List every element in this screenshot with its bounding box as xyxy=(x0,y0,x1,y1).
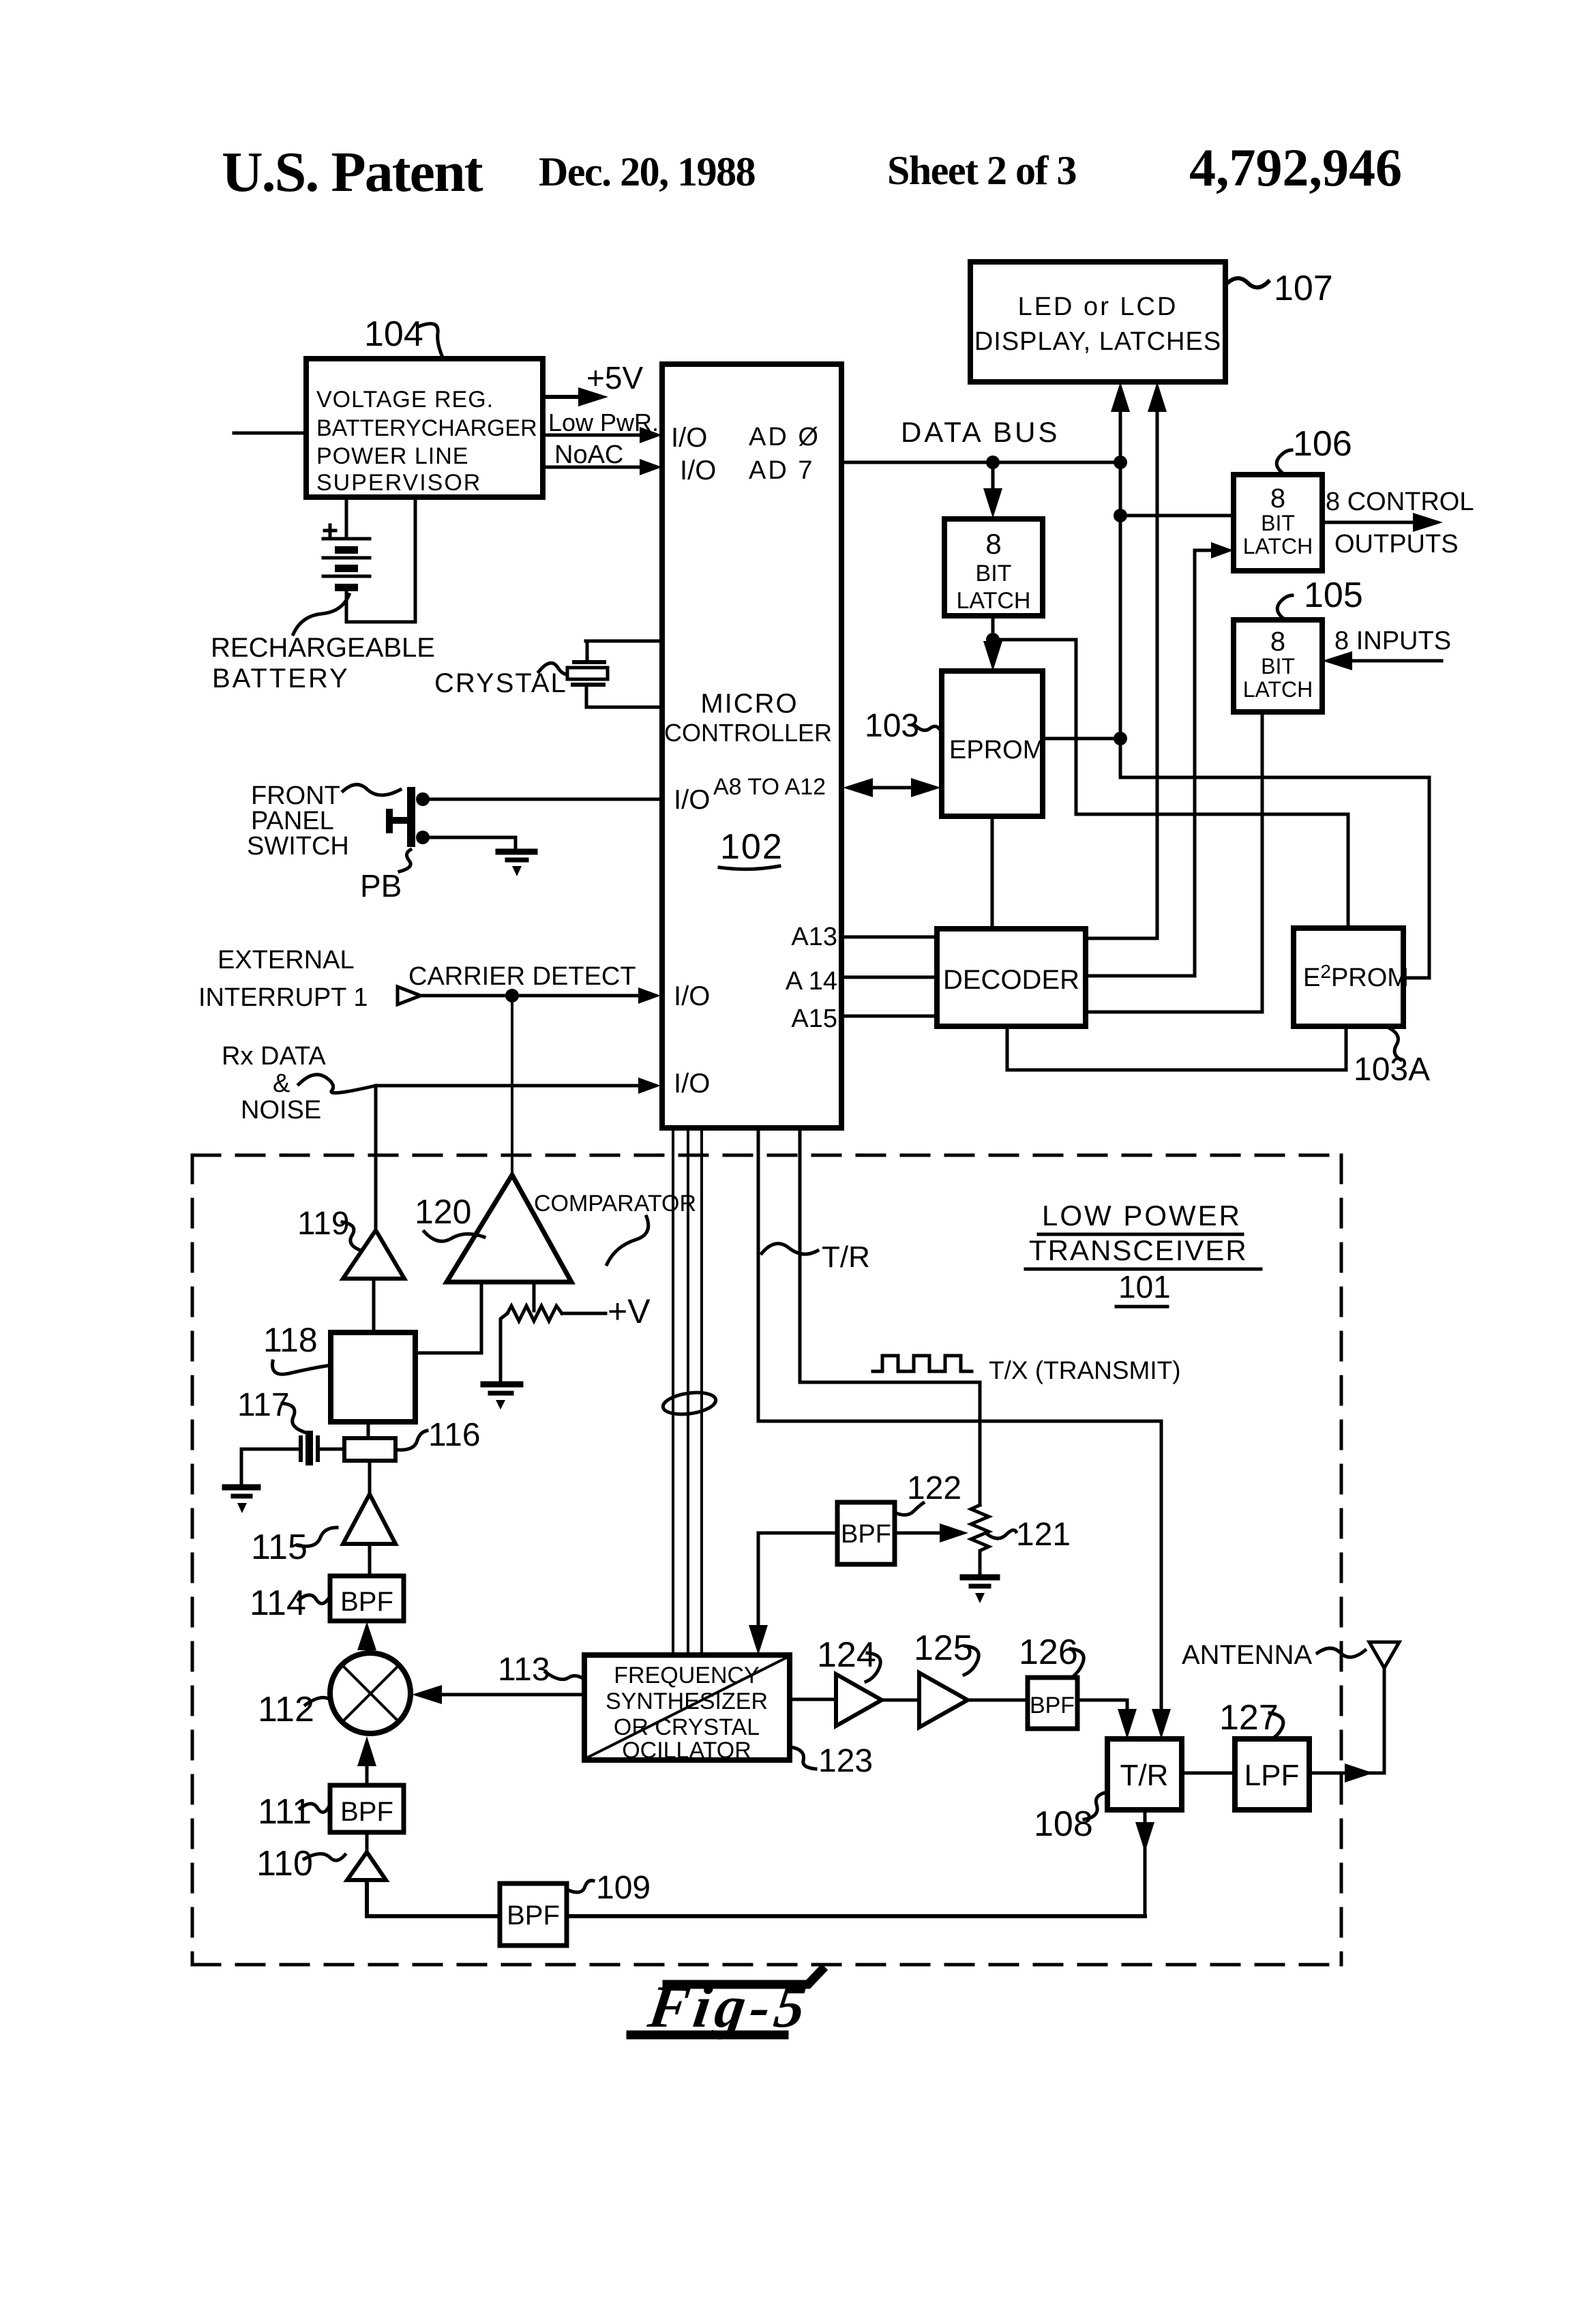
svg-text:122: 122 xyxy=(907,1470,961,1506)
wire resistor to +V xyxy=(562,1312,606,1315)
arrow T/R into switch xyxy=(1152,1709,1171,1739)
wire amp 125 to BPF 126 xyxy=(968,1699,1028,1702)
wire latch output branch to E2PROM top xyxy=(993,640,1348,928)
label 125 xyxy=(914,1628,979,1675)
svg-text:8: 8 xyxy=(1270,627,1285,657)
wire/arrow LPF to antenna xyxy=(1309,1763,1384,1783)
wire/arrow decoder enable into latch 106 xyxy=(1195,542,1234,558)
svg-text:124: 124 xyxy=(817,1635,876,1675)
svg-text:101: 101 xyxy=(1118,1269,1171,1305)
pushbutton front panel switch PB xyxy=(386,787,430,847)
node data bus to LED riser xyxy=(1114,456,1127,469)
block 118 xyxy=(331,1332,415,1422)
wire amp 110 to BPF 109 xyxy=(367,1880,500,1916)
wire amp 119 to block 118 xyxy=(372,1279,376,1332)
BPF 126 xyxy=(1028,1678,1077,1729)
wire switch top contact to micro I/O xyxy=(429,798,662,801)
svg-text:121: 121 xyxy=(1016,1517,1071,1553)
frequency synthesizer 113/123 xyxy=(584,1655,790,1763)
svg-text:112: 112 xyxy=(258,1690,314,1729)
wire BPF 122 to synthesizer with arrow xyxy=(749,1533,837,1655)
label crystal xyxy=(434,663,569,698)
svg-text:109: 109 xyxy=(596,1870,651,1906)
svg-text:I/O: I/O xyxy=(674,1069,710,1099)
svg-text:8: 8 xyxy=(985,528,1001,560)
BPF 109 xyxy=(500,1883,567,1946)
label 121 xyxy=(987,1517,1071,1553)
wire A13 micro to decoder xyxy=(841,936,937,939)
ground (pot 121) xyxy=(963,1577,997,1603)
label 107 xyxy=(1227,269,1333,308)
wire/arrow decoder riser into display xyxy=(1148,382,1167,938)
svg-text:120: 120 xyxy=(415,1193,471,1231)
label external interrupt 1 xyxy=(198,946,368,1012)
mixer 112 xyxy=(330,1653,411,1733)
svg-text:TRANSCEIVER: TRANSCEIVER xyxy=(1029,1234,1248,1266)
svg-text:105: 105 xyxy=(1304,576,1363,615)
svg-text:Sheet 2 of 3: Sheet 2 of 3 xyxy=(887,148,1076,193)
svg-text:I/O: I/O xyxy=(680,456,716,486)
label 117 xyxy=(237,1387,304,1432)
node carrier detect junction xyxy=(505,989,519,1002)
comparator 120 xyxy=(447,1175,571,1282)
svg-text:POWER LINE: POWER LINE xyxy=(316,443,468,469)
svg-text:AD Ø: AD Ø xyxy=(749,423,820,451)
svg-text:126: 126 xyxy=(1019,1633,1078,1672)
svg-text:RECHARGEABLE: RECHARGEABLE xyxy=(211,633,435,663)
svg-text:119: 119 xyxy=(297,1206,350,1242)
svg-text:NOISE: NOISE xyxy=(241,1096,321,1124)
block 105 8 bit latch xyxy=(1234,620,1322,712)
label PB xyxy=(360,850,411,904)
svg-text:Rx DATA: Rx DATA xyxy=(222,1042,326,1071)
wire 104 to battery + xyxy=(345,497,348,539)
label 110 xyxy=(256,1844,345,1883)
svg-text:A 14: A 14 xyxy=(786,967,837,996)
svg-text:CRYSTAL: CRYSTAL xyxy=(434,668,567,698)
svg-text:I/O: I/O xyxy=(674,981,710,1011)
wire/arrow mixer to BPF 114 xyxy=(357,1622,376,1653)
svg-text:OR CRYSTAL: OR CRYSTAL xyxy=(614,1714,760,1740)
label front panel switch xyxy=(247,781,400,861)
amplifier 110 xyxy=(347,1852,386,1880)
wire crystal to 116 xyxy=(320,1448,344,1451)
svg-text:&: & xyxy=(273,1069,290,1098)
svg-text:T/X (TRANSMIT): T/X (TRANSMIT) xyxy=(989,1356,1181,1384)
svg-text:8: 8 xyxy=(1270,483,1285,513)
svg-text:127: 127 xyxy=(1219,1698,1279,1738)
wire BPF 109 to T/R switch xyxy=(567,1914,1145,1918)
8 bit latch (data bus) xyxy=(944,519,1043,616)
wire/arrow 8 control outputs xyxy=(1322,488,1474,558)
figure label Fig-5 xyxy=(631,1970,822,2040)
svg-text:SUPERVISOR: SUPERVISOR xyxy=(316,470,481,496)
wire AC input to block 104 xyxy=(234,432,306,435)
wire decoder select to latch 105 xyxy=(1086,712,1262,1012)
label antenna xyxy=(1182,1640,1365,1670)
svg-text:113: 113 xyxy=(498,1652,550,1688)
wire decoder select to latch 106 xyxy=(1086,550,1195,976)
svg-text:DATA BUS: DATA BUS xyxy=(901,416,1060,448)
wire/arrow T/R switch receive out xyxy=(1135,1810,1154,1916)
block 104 voltage regulator / battery charger xyxy=(306,359,543,497)
wire to ground 117 xyxy=(240,1449,243,1485)
wire/arrow data bus into 8 bit latch xyxy=(983,462,1002,518)
wire 116 to amp 115 xyxy=(368,1461,372,1494)
filter 116 xyxy=(344,1438,395,1461)
ground (switch) xyxy=(498,852,535,876)
label comparator xyxy=(534,1191,696,1264)
svg-text:BIT: BIT xyxy=(1261,654,1295,679)
wire T/R to LPF xyxy=(1182,1772,1235,1775)
ground (comparator ref) xyxy=(483,1384,520,1410)
wire T/X from micro to pot 121 xyxy=(800,1128,980,1505)
wire switch bottom contact to ground xyxy=(429,837,516,850)
block 103A E2PROM xyxy=(1294,928,1409,1026)
node latch106 feed junction xyxy=(1114,509,1127,522)
svg-text:LATCH: LATCH xyxy=(957,588,1031,614)
svg-text:SWITCH: SWITCH xyxy=(247,832,349,861)
wire resistor to ground xyxy=(501,1313,507,1382)
label 118 xyxy=(263,1321,331,1374)
label 123 xyxy=(791,1743,873,1779)
wire A8-A12 double arrow micro-EPROM xyxy=(843,778,941,797)
wire comparator ref input xyxy=(533,1282,536,1311)
svg-text:BPF: BPF xyxy=(841,1520,891,1549)
wire/arrow 8 inputs xyxy=(1322,627,1451,670)
BPF 114 xyxy=(330,1576,404,1621)
label T/R xyxy=(762,1240,870,1274)
svg-text:A15: A15 xyxy=(791,1004,837,1033)
amplifier 125 xyxy=(919,1673,968,1727)
svg-text:125: 125 xyxy=(914,1628,973,1668)
wire EPROM to decoder xyxy=(991,816,994,929)
block 103 EPROM xyxy=(942,671,1044,816)
svg-text:123: 123 xyxy=(818,1743,873,1779)
label Rx data and noise xyxy=(222,1042,376,1124)
label 113 xyxy=(498,1652,584,1688)
svg-text:NoAC: NoAC xyxy=(554,441,623,469)
wire 118 output to comparator input xyxy=(415,1282,481,1353)
svg-text:DECODER: DECODER xyxy=(943,965,1079,995)
svg-text:BIT: BIT xyxy=(976,561,1012,586)
svg-text:BATTERY: BATTERY xyxy=(212,664,350,694)
svg-text:FREQUENCY: FREQUENCY xyxy=(614,1663,759,1688)
wire amp 124 to amp 125 xyxy=(882,1699,919,1702)
svg-text:118: 118 xyxy=(263,1321,318,1359)
svg-text:MICRO: MICRO xyxy=(700,689,798,719)
wire crystal node xyxy=(241,1448,299,1451)
svg-text:PANEL: PANEL xyxy=(251,807,334,835)
amplifier 115 xyxy=(343,1494,395,1544)
svg-text:FRONT: FRONT xyxy=(251,781,340,810)
svg-text:DISPLAY, LATCHES: DISPLAY, LATCHES xyxy=(974,327,1221,356)
svg-text:LED or LCD: LED or LCD xyxy=(1018,293,1178,321)
svg-text:I/O: I/O xyxy=(674,785,710,815)
svg-text:108: 108 xyxy=(1034,1804,1093,1844)
label 105 xyxy=(1277,576,1363,620)
wire/arrow BPF 126 to T/R switch xyxy=(1077,1700,1137,1739)
label low power transceiver 101 xyxy=(1026,1200,1261,1307)
block 106 8 bit latch xyxy=(1234,475,1322,571)
svg-text:104: 104 xyxy=(364,314,423,354)
svg-text:I/O: I/O xyxy=(671,423,707,453)
svg-text:LATCH: LATCH xyxy=(1243,534,1313,558)
svg-text:SYNTHESIZER: SYNTHESIZER xyxy=(606,1688,768,1714)
svg-text:BPF: BPF xyxy=(1030,1693,1075,1718)
svg-text:Dec. 20, 1988: Dec. 20, 1988 xyxy=(539,149,756,194)
svg-text:Low PwR.: Low PwR. xyxy=(548,408,659,436)
svg-text:107: 107 xyxy=(1274,269,1333,308)
svg-text:EPROM: EPROM xyxy=(949,736,1044,764)
T/X square wave symbol xyxy=(873,1356,972,1371)
label 108 xyxy=(1034,1792,1107,1844)
BPF 111 xyxy=(330,1785,404,1832)
label 114 xyxy=(250,1583,329,1623)
svg-text:T/R: T/R xyxy=(822,1240,870,1274)
wire Rx data down to amp 119 xyxy=(374,1086,378,1230)
label 119 xyxy=(297,1206,361,1251)
svg-text:8 CONTROL: 8 CONTROL xyxy=(1326,488,1474,516)
label 112 xyxy=(258,1690,330,1729)
BPF 122 xyxy=(837,1502,895,1564)
svg-text:106: 106 xyxy=(1293,424,1352,464)
label 106 xyxy=(1277,424,1352,475)
wire decoder select to E2PROM bottom xyxy=(1007,1026,1346,1070)
antenna xyxy=(1369,1642,1399,1773)
svg-text:BPF: BPF xyxy=(340,1587,393,1617)
label 124 xyxy=(817,1635,880,1682)
wire A15 micro to decoder xyxy=(841,1015,937,1018)
svg-text:103: 103 xyxy=(865,708,919,744)
wire micro to synthesizer line 3 xyxy=(700,1128,703,1655)
svg-text:103A: 103A xyxy=(1354,1052,1430,1088)
wire T/R from micro to T/R switch xyxy=(758,1128,1161,1731)
svg-text:Fig-5: Fig-5 xyxy=(644,1973,814,2040)
svg-text:CARRIER DETECT: CARRIER DETECT xyxy=(408,962,636,991)
microcontroller U102 xyxy=(662,364,841,1128)
wire decoder select to display riser xyxy=(1086,937,1157,940)
Low Pwr output arrow xyxy=(543,408,662,443)
svg-text:CONTROLLER: CONTROLLER xyxy=(664,719,832,747)
svg-text:INTERRUPT 1: INTERRUPT 1 xyxy=(198,983,368,1012)
svg-text:BPF: BPF xyxy=(340,1797,393,1827)
wire A14 micro to decoder xyxy=(841,976,937,979)
+5V output arrow xyxy=(543,360,643,406)
svg-text:A13: A13 xyxy=(791,923,837,951)
wire micro to synthesizer line 1 xyxy=(672,1128,674,1655)
label 103A xyxy=(1354,1028,1430,1088)
block 107 LED or LCD display xyxy=(970,262,1225,382)
label 103 xyxy=(865,708,942,744)
wire junction to comparator xyxy=(511,996,513,1175)
wire EPROM data loop to E2PROM right xyxy=(1120,777,1429,978)
label 109 xyxy=(569,1870,651,1906)
svg-text:A8 TO A12: A8 TO A12 xyxy=(713,774,826,800)
svg-text:COMPARATOR: COMPARATOR xyxy=(534,1191,696,1217)
svg-text:+5V: +5V xyxy=(586,360,643,396)
wire Rx data to micro xyxy=(376,1077,661,1094)
label 127 xyxy=(1219,1698,1283,1739)
label 116 xyxy=(397,1417,481,1453)
crystal 117 xyxy=(301,1431,318,1465)
label 115 xyxy=(251,1528,337,1567)
svg-text:PB: PB xyxy=(360,868,402,904)
wire micro to synthesizer line 2 xyxy=(687,1128,689,1655)
svg-text:T/R: T/R xyxy=(1120,1759,1169,1792)
block decoder xyxy=(937,929,1086,1026)
label rechargeable battery xyxy=(211,595,435,694)
resistor (comparator ref) xyxy=(507,1306,562,1321)
wire EPROM output to bus riser xyxy=(1043,737,1119,741)
potentiometer 121 xyxy=(971,1505,989,1575)
wire/arrow BPF 111 to mixer xyxy=(357,1736,376,1785)
svg-text:LPF: LPF xyxy=(1244,1759,1300,1792)
svg-text:4,792,946: 4,792,946 xyxy=(1189,138,1402,197)
svg-text:LATCH: LATCH xyxy=(1243,677,1313,702)
wire 118 to filter 116 xyxy=(367,1422,370,1438)
NoAC output arrow xyxy=(543,441,662,475)
wire data bus xyxy=(841,416,1120,462)
svg-text:111: 111 xyxy=(258,1792,312,1832)
label 111 xyxy=(258,1792,329,1832)
cable loop xyxy=(661,1390,717,1418)
amplifier 119 xyxy=(343,1230,404,1279)
svg-text:BIT: BIT xyxy=(1261,511,1295,535)
svg-text:BPF: BPF xyxy=(507,1901,560,1931)
svg-text:8 INPUTS: 8 INPUTS xyxy=(1334,627,1451,655)
svg-text:102: 102 xyxy=(720,827,783,867)
svg-text:+V: +V xyxy=(608,1292,651,1330)
wire BPF 111 to amp 110 xyxy=(365,1832,369,1852)
wire latch to EPROM with arrow xyxy=(983,616,1002,671)
wire/arrow BPF 122 to pot xyxy=(895,1523,968,1543)
svg-text:116: 116 xyxy=(428,1417,481,1453)
T/R switch 108 xyxy=(1107,1739,1182,1810)
label 122 xyxy=(895,1470,961,1515)
svg-text:LOW POWER: LOW POWER xyxy=(1042,1200,1242,1232)
node data bus to latch xyxy=(986,456,1000,469)
svg-text:ANTENNA: ANTENNA xyxy=(1182,1640,1312,1670)
amplifier 124 xyxy=(836,1674,882,1726)
svg-text:EXTERNAL: EXTERNAL xyxy=(218,946,355,974)
node EPROM output junction xyxy=(1114,732,1127,745)
label 120 xyxy=(415,1193,484,1241)
svg-text:VOLTAGE REG.: VOLTAGE REG. xyxy=(316,387,494,413)
dashed enclosure low power transceiver 101 xyxy=(192,1155,1341,1965)
svg-text:110: 110 xyxy=(256,1844,313,1883)
svg-text:AD 7: AD 7 xyxy=(749,456,814,485)
wire amp 115 to BPF 114 xyxy=(368,1544,372,1576)
svg-text:114: 114 xyxy=(250,1583,306,1623)
node latch output junction xyxy=(986,633,1000,646)
svg-text:OUTPUTS: OUTPUTS xyxy=(1334,530,1459,558)
svg-text:BATTERYCHARGER: BATTERYCHARGER xyxy=(316,415,537,441)
svg-text:OCILLATOR: OCILLATOR xyxy=(622,1738,751,1763)
label 126 xyxy=(1019,1633,1084,1678)
wire carrier detect xyxy=(408,962,661,1004)
svg-text:E2PROM: E2PROM xyxy=(1303,961,1409,992)
wire riser to 8 bit latch 106 xyxy=(1120,514,1234,518)
ground (crystal 117) xyxy=(225,1487,258,1513)
svg-text:117: 117 xyxy=(237,1387,290,1423)
wire battery negative loop to 104 xyxy=(346,497,415,622)
wire/arrow bus riser into display xyxy=(1111,382,1130,777)
wire/arrow synthesizer to mixer xyxy=(412,1685,584,1704)
svg-text:U.S. Patent: U.S. Patent xyxy=(222,140,483,204)
LPF 127 xyxy=(1235,1739,1309,1810)
wire synthesizer to amp 124 xyxy=(790,1698,836,1701)
input port triangle xyxy=(398,987,421,1004)
crystal xyxy=(567,641,661,707)
label 104 xyxy=(364,314,443,359)
rechargeable battery xyxy=(323,525,370,591)
